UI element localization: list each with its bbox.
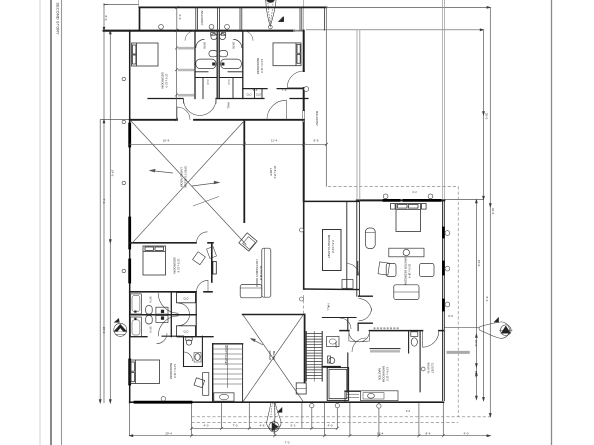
shelf + chair + ottoman west side xyxy=(389,247,391,249)
bottom dim structure xyxy=(129,403,131,436)
vanity pills xyxy=(146,306,153,315)
svg-text:8'-4: 8'-4 xyxy=(485,297,489,302)
svg-text:BELOW: BELOW xyxy=(272,351,276,361)
svg-text:10'-0: 10'-0 xyxy=(474,340,478,347)
diagonal X: living room open-to-below xyxy=(131,121,247,245)
section marker right xyxy=(479,318,513,339)
hall north wall y=98.5 xyxy=(148,98,183,100)
bath block side walls xyxy=(194,31,196,99)
vanity closet xyxy=(212,344,214,402)
dimension texts xyxy=(102,15,495,445)
cabinet at hall corner xyxy=(342,280,353,289)
svg-text:CLO: CLO xyxy=(184,331,189,334)
beds xyxy=(130,43,426,384)
svg-text:BEDROOM: BEDROOM xyxy=(161,73,165,89)
horizontal dim line y=144.3 xyxy=(130,7,327,144)
room label texts (rotated) xyxy=(149,11,435,383)
section marker left small xyxy=(114,318,127,336)
slash ticks on bottom dim xyxy=(190,427,339,430)
svg-text:4'-0: 4'-0 xyxy=(204,424,209,428)
bed bedroom2 xyxy=(273,43,301,66)
SE bedroom doors xyxy=(352,338,366,352)
svg-text:4'-6: 4'-6 xyxy=(260,424,265,428)
svg-text:HALL: HALL xyxy=(227,102,231,109)
svg-text:16'-4: 16'-4 xyxy=(163,138,170,142)
svg-text:MASTER: MASTER xyxy=(378,368,382,380)
bed bedroom4 xyxy=(130,360,160,384)
balcony top wall xyxy=(140,6,327,8)
door arcs xyxy=(157,31,372,352)
vanity counter xyxy=(361,391,399,401)
master west partial wall xyxy=(356,200,358,296)
svg-text:4'-0: 4'-0 xyxy=(328,424,333,428)
master closet walls xyxy=(346,201,348,289)
svg-text:BATH: BATH xyxy=(334,342,337,348)
svg-text:SECOND STORY: SECOND STORY xyxy=(56,3,60,36)
svg-text:CLO: CLO xyxy=(184,298,189,301)
closet dividers under baths xyxy=(202,78,204,99)
svg-text:BATH: BATH xyxy=(202,42,205,49)
mid bath fixtures xyxy=(327,318,352,364)
threshold dashes at master bedroom entry xyxy=(374,327,400,329)
svg-text:4'-2: 4'-2 xyxy=(412,190,417,194)
svg-text:BALCONY: BALCONY xyxy=(200,11,204,26)
clock cabinet xyxy=(365,228,375,249)
svg-text:CLO: CLO xyxy=(206,80,209,85)
svg-text:12'-0 x 11'-0: 12'-0 x 11'-0 xyxy=(165,74,169,88)
small table xyxy=(207,247,217,259)
balcony posts xyxy=(196,7,325,30)
left dim lines xyxy=(99,120,101,404)
toilets pair xyxy=(211,34,217,40)
svg-text:CLO: CLO xyxy=(227,80,230,85)
svg-text:8'-6: 8'-6 xyxy=(314,138,319,142)
svg-text:18'-0: 18'-0 xyxy=(477,260,481,267)
balcony upper doors on wall y=30.7 xyxy=(185,31,195,41)
svg-text:BEDROOM: BEDROOM xyxy=(169,363,173,379)
svg-text:LOFT/FAMILY ROOM: LOFT/FAMILY ROOM xyxy=(255,259,259,287)
leader arrows center xyxy=(150,169,173,173)
bedroom1 closet shelves (gray bands) xyxy=(178,48,194,95)
dimension ticks and arrows xyxy=(99,3,491,437)
svg-text:36'-8: 36'-8 xyxy=(491,208,495,215)
svg-text:16'-0 x 18'-4: 16'-0 x 18'-4 xyxy=(408,264,412,279)
master entry double doors xyxy=(359,299,372,312)
master divider wall xyxy=(340,330,349,332)
svg-text:9'-6 x 16'-8: 9'-6 x 16'-8 xyxy=(331,240,335,253)
svg-text:BEDROOM: BEDROOM xyxy=(173,258,177,274)
tub bath B xyxy=(131,317,142,336)
svg-text:16'-8: 16'-8 xyxy=(474,371,478,378)
interior walls xyxy=(130,31,420,402)
master entry door jamb stubs xyxy=(359,295,373,297)
svg-text:BEDROOM: BEDROOM xyxy=(256,58,260,74)
stair west wall xyxy=(304,315,306,383)
svg-text:6'-2: 6'-2 xyxy=(291,424,296,428)
bedroom2 south wall + closets xyxy=(243,88,267,90)
bedroom2 door arc on east wall xyxy=(287,71,304,88)
dimension and extension lines xyxy=(100,0,490,436)
svg-text:HALL: HALL xyxy=(327,304,331,311)
svg-text:CLO: CLO xyxy=(247,94,252,97)
tag circle on wall x=420 xyxy=(421,367,425,371)
right dim verticals xyxy=(442,0,444,200)
west wall xyxy=(129,31,131,403)
bath2 fixtures (mid-left) xyxy=(131,293,190,336)
svg-text:28'-0: 28'-0 xyxy=(484,113,488,120)
master bath fixtures xyxy=(346,331,439,401)
bedroom3 door xyxy=(197,280,209,292)
master bath walls xyxy=(347,353,349,392)
svg-text:12'-0 x 11'-6: 12'-0 x 11'-6 xyxy=(177,259,181,273)
svg-text:7'-0: 7'-0 xyxy=(285,441,290,445)
dashed roof/overhang lines xyxy=(192,186,491,422)
tub bath A xyxy=(131,294,142,314)
svg-text:16'-0 x 16'-8: 16'-0 x 16'-8 xyxy=(259,266,263,281)
desk + chair bedroom4 xyxy=(203,373,209,396)
svg-text:7'-4: 7'-4 xyxy=(282,88,287,92)
svg-text:BATH: BATH xyxy=(232,42,235,49)
svg-text:4'-0: 4'-0 xyxy=(464,432,469,436)
tubs xyxy=(196,59,216,69)
bedroom4 bath fixtures xyxy=(184,337,209,395)
svg-text:BATH: BATH xyxy=(149,327,152,333)
window tag circles xyxy=(122,24,450,408)
WALLS xyxy=(104,7,445,402)
svg-text:8'-6: 8'-6 xyxy=(104,16,108,21)
svg-text:11'-4: 11'-4 xyxy=(271,138,278,142)
top dim lines xyxy=(104,4,139,6)
storage box xyxy=(327,368,348,401)
double doors from hall xyxy=(349,332,359,342)
bedroom2 south door arc xyxy=(267,100,286,119)
svg-text:LOFT: LOFT xyxy=(269,168,273,176)
line of wall below (gray pair) xyxy=(356,30,358,201)
svg-text:BALCONY: BALCONY xyxy=(315,111,319,126)
bath center wall xyxy=(216,32,218,99)
closet strip tick marks xyxy=(175,29,178,121)
bedroom1 door on y=119.8 xyxy=(177,107,190,120)
svg-text:12'-6 x 11'-0: 12'-6 x 11'-0 xyxy=(173,364,177,378)
svg-text:3'-0: 3'-0 xyxy=(448,314,453,318)
bedroom1 closet strip dim line xyxy=(176,31,178,120)
door arcs into baths xyxy=(158,293,178,313)
west wall window segments xyxy=(128,124,131,146)
closet door arc right xyxy=(423,331,439,347)
svg-text:26'-0: 26'-0 xyxy=(102,327,106,334)
svg-text:CLOSET: CLOSET xyxy=(431,363,435,374)
section marker top xyxy=(266,0,284,29)
gray porch bar xyxy=(447,351,470,354)
svg-text:5'-4: 5'-4 xyxy=(253,88,258,92)
bed bedroom3 xyxy=(143,246,166,275)
svg-text:CLO: CLO xyxy=(256,94,261,97)
svg-text:29'-4: 29'-4 xyxy=(165,432,172,436)
foyer top wall xyxy=(243,314,304,316)
threshold gray band xyxy=(370,350,400,352)
svg-text:MASTER CLOSET: MASTER CLOSET xyxy=(327,235,331,259)
wing wall y=200 xyxy=(357,199,445,201)
svg-text:3'-6: 3'-6 xyxy=(406,409,411,413)
svg-text:16'-4: 16'-4 xyxy=(377,432,384,436)
svg-text:FOYER: FOYER xyxy=(268,351,272,361)
svg-text:BATH: BATH xyxy=(149,297,152,303)
bedroom3 (mid-left) walls xyxy=(130,242,196,244)
bed bedroom1 xyxy=(132,43,159,66)
bath2 block walls xyxy=(170,292,172,337)
svg-text:13'-6 x 11'-0: 13'-6 x 11'-0 xyxy=(386,367,390,381)
top extension verticals xyxy=(138,0,140,7)
svg-text:16'-8 x 8'-0: 16'-8 x 8'-0 xyxy=(273,166,277,179)
svg-text:WALK-IN: WALK-IN xyxy=(427,363,431,374)
door arcs bath xyxy=(196,39,205,48)
balcony east edge xyxy=(325,7,327,186)
stairs xyxy=(296,331,322,394)
toilets xyxy=(156,307,168,314)
north main wall xyxy=(104,30,294,32)
vanity closet shelves xyxy=(214,345,242,401)
toilet in water closet xyxy=(411,332,418,337)
svg-text:OPEN TO BELOW: OPEN TO BELOW xyxy=(184,166,188,188)
svg-text:12'-0 x 11'-0: 12'-0 x 11'-0 xyxy=(260,59,264,73)
svg-text:BATHROOM: BATHROOM xyxy=(382,366,386,383)
closet shelf lines SW of vanity xyxy=(346,393,359,395)
hall walls right of stairs xyxy=(322,317,356,319)
linen closets right of baths xyxy=(177,293,196,303)
svg-text:7'-6: 7'-6 xyxy=(102,199,106,204)
svg-text:6'-6: 6'-6 xyxy=(178,15,182,20)
svg-text:VANITY CLOSET: VANITY CLOSET xyxy=(224,345,228,366)
east wall lower double xyxy=(442,200,444,400)
svg-text:24'-6: 24'-6 xyxy=(111,170,115,177)
bedroom3 chair xyxy=(193,252,206,265)
master closet door xyxy=(347,264,359,276)
south wall xyxy=(130,401,444,403)
bedroom4 small bath xyxy=(183,336,185,366)
hall wall upper (y=119.8) xyxy=(130,119,177,121)
svg-text:LIVING ROOM: LIVING ROOM xyxy=(180,167,184,188)
closet island xyxy=(323,230,342,271)
bed master xyxy=(396,204,421,232)
svg-text:MASTER BEDROOM: MASTER BEDROOM xyxy=(404,258,408,286)
diagonal X: foyer below xyxy=(243,315,303,401)
section marker bottom xyxy=(267,403,282,434)
upper bath fixtures xyxy=(196,33,242,69)
bath lower shelf walls xyxy=(195,71,208,73)
hall double closet doors (below y=98.5 wall) xyxy=(184,99,200,115)
balcony window on east wall xyxy=(303,110,305,122)
small pills xyxy=(209,51,218,57)
svg-text:8'-4: 8'-4 xyxy=(426,432,431,436)
loft family-room furniture xyxy=(193,233,271,298)
east wall upper xyxy=(303,31,305,71)
bedroom4 door xyxy=(157,333,168,344)
loft east wall (two-storey space boundary) xyxy=(243,121,245,224)
svg-text:7'-0: 7'-0 xyxy=(233,424,238,428)
master bedroom furniture xyxy=(342,228,434,328)
